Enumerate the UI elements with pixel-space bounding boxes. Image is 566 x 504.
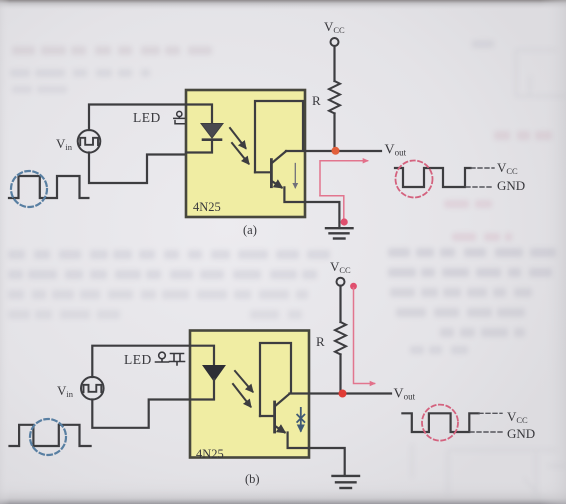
blocked current arrow with X (b)	[297, 408, 304, 431]
svg-text:4N25: 4N25	[196, 447, 224, 461]
optocoupler U2 4N25 body (b)	[190, 331, 309, 458]
wire LED anode lead (a)	[186, 105, 212, 124]
svg-text:(a): (a)	[243, 223, 257, 237]
svg-text:GND: GND	[497, 178, 525, 193]
red current path to ground (a)	[320, 196, 344, 219]
diode LED D1 (a)	[201, 124, 223, 140]
input waveform (a)	[9, 176, 88, 198]
ground (a)	[326, 228, 353, 238]
output waveform (b)	[402, 413, 478, 432]
highlight circle (blue dashed, input a)	[11, 171, 47, 207]
source Vin (a)	[78, 130, 101, 153]
label LED off (b)	[124, 352, 185, 367]
svg-text:R: R	[312, 93, 321, 108]
transistor Q2 emitter with arrow (b)	[276, 427, 285, 433]
transistor Q1 base bar (a)	[270, 160, 273, 187]
diode LED D2 (b)	[203, 366, 225, 382]
svg-text:(b): (b)	[245, 472, 260, 486]
wire LED anode lead (b)	[190, 346, 214, 366]
source Vin (b)	[81, 377, 104, 400]
wire Vin+ to LED anode (top loop, b)	[92, 346, 190, 377]
transistor Q2 base bar (b)	[273, 402, 276, 432]
label LED on (a)	[133, 110, 185, 125]
light arrows (b)	[233, 371, 253, 407]
transistor Q1 base lead (a)	[255, 171, 270, 173]
transistor Q2 base lead (b)	[260, 415, 274, 417]
ground (b)	[333, 476, 360, 488]
dashed level lines (b)	[470, 413, 502, 432]
transistor Q1 collector (a)	[273, 151, 287, 162]
wire LED cathode lead (b)	[190, 379, 214, 400]
wire Vin- return (bottom loop, b)	[92, 400, 190, 428]
highlight circle (red dashed, output b)	[422, 405, 458, 441]
optocoupler U1 4N25 body (a)	[186, 90, 305, 217]
wire resistor to node (a)	[333, 113, 335, 151]
resistor R (a)	[329, 81, 340, 113]
wire collector node to Vout (b)	[290, 392, 392, 394]
red current path arrow (a)	[320, 161, 368, 196]
light arrows (a)	[230, 128, 249, 164]
current arrow down (a)	[294, 164, 296, 188]
node dot Vout (a)	[332, 147, 340, 155]
svg-text:4N25: 4N25	[193, 200, 221, 214]
wire Vin- return (bottom loop, a)	[89, 153, 186, 184]
svg-text:LED: LED	[133, 110, 161, 125]
resistor R (b)	[335, 322, 346, 354]
highlight circle (blue dashed, input b)	[30, 419, 66, 455]
wire Vcc to resistor (a)	[333, 46, 335, 81]
highlight circle (red dashed, output a)	[396, 161, 433, 198]
svg-text:GND: GND	[507, 426, 535, 441]
wire resistor to node (b)	[339, 354, 341, 393]
wire Vin+ to LED anode (top loop, a)	[89, 105, 186, 131]
wire LED cathode lead (a)	[186, 140, 212, 153]
transistor Q1 emitter with arrow (a)	[273, 182, 282, 188]
terminal Vcc (b)	[337, 278, 345, 286]
red current path (b)	[354, 288, 375, 384]
wire emitter to ground (a)	[284, 187, 339, 227]
node dot Vout (b)	[339, 390, 347, 398]
wire Vcc to resistor (b)	[339, 286, 341, 322]
photodetector plate (a)	[255, 101, 303, 172]
photodetector plate (b)	[260, 343, 291, 416]
svg-text:R: R	[316, 334, 325, 349]
wire emitter to ground (b)	[288, 433, 345, 475]
output waveform (a)	[395, 168, 471, 187]
wire collector node to Vout (a)	[286, 150, 381, 152]
dashed level lines (a)	[466, 168, 494, 187]
red node dot at ground (a)	[341, 218, 348, 225]
svg-text:LED: LED	[124, 352, 152, 367]
terminal Vcc (a)	[331, 38, 339, 46]
red node dot top (b)	[350, 283, 357, 290]
input waveform (b)	[10, 425, 91, 446]
transistor Q2 collector (b)	[276, 394, 290, 406]
